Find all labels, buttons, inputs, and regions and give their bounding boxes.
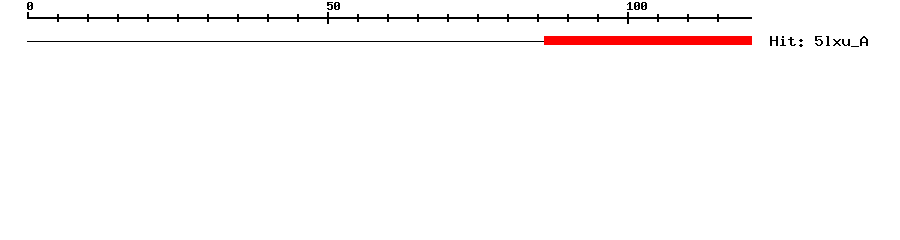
ruler label 100 (627, 2, 647, 10)
hit bar (alignment region, red) (544, 36, 752, 45)
minor tick 10 (87, 14, 89, 22)
minor tick 35 (237, 14, 239, 22)
minor tick 45 (297, 14, 299, 22)
ruler axis line (27, 17, 752, 19)
query line (27, 41, 752, 42)
minor tick 40 (267, 14, 269, 22)
major tick 0 (axis start, above line only) (27, 12, 29, 19)
minor tick 30 (207, 14, 209, 22)
minor tick 15 (117, 14, 119, 22)
minor tick 70 (447, 14, 449, 22)
minor tick 75 (477, 14, 479, 22)
minor tick 115 (717, 14, 719, 22)
minor tick 65 (417, 14, 419, 22)
minor tick 105 (657, 14, 659, 22)
background (0, 0, 900, 60)
ruler label 0 (27, 2, 33, 10)
minor tick 20 (147, 14, 149, 22)
minor tick 5 (57, 14, 59, 22)
minor tick 85 (537, 14, 539, 22)
minor tick 90 (567, 14, 569, 22)
minor tick 55 (357, 14, 359, 22)
minor tick 95 (597, 14, 599, 22)
major tick 50 (327, 12, 329, 24)
ruler label 50 (327, 2, 340, 10)
hit label Hit: 5lxu_A (770, 36, 868, 47)
minor tick 60 (387, 14, 389, 22)
minor tick 110 (687, 14, 689, 22)
major tick 100 (627, 12, 629, 24)
minor tick 80 (507, 14, 509, 22)
minor tick 25 (177, 14, 179, 22)
